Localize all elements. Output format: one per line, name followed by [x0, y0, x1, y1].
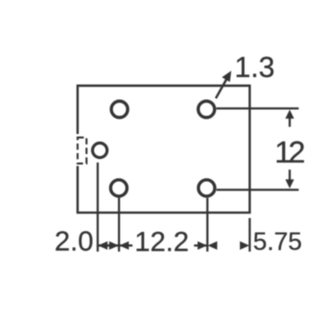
svg-text:5.75: 5.75	[253, 228, 302, 256]
label 2.0	[55, 225, 94, 256]
package outline	[78, 86, 250, 213]
extension line A (hole L-mid)	[97, 163, 99, 252]
extension line bottom (hole BR center)	[217, 189, 299, 191]
dashed side tab	[78, 138, 87, 164]
hole top-left	[111, 101, 127, 117]
svg-text:12.2: 12.2	[135, 226, 190, 257]
dim 12.2 right arrow	[194, 241, 207, 250]
leader arrow for 1.3	[216, 71, 232, 99]
extension line C (hole BR)	[206, 198, 208, 252]
hole bottom-left	[111, 180, 127, 196]
extension line top (hole TR center)	[216, 107, 298, 109]
dim 5.75 right arrow	[240, 241, 250, 250]
dim 12 up arrow	[285, 110, 294, 127]
svg-text:2.0: 2.0	[55, 225, 94, 256]
dim 12 down arrow	[285, 170, 294, 189]
svg-text:1.3: 1.3	[235, 52, 275, 84]
dim 12.2 left arrow	[119, 241, 132, 250]
dim 2.0 arrows	[98, 241, 119, 250]
extension line B (hole BL)	[118, 198, 120, 252]
extension line D (package right edge)	[249, 218, 251, 252]
dim 5.75 left arrow	[208, 241, 218, 250]
hole top-right	[198, 101, 214, 117]
label 5.75	[253, 228, 302, 256]
hole bottom-right	[198, 180, 214, 196]
label 1.3	[235, 52, 275, 84]
hole left-middle	[93, 143, 108, 158]
svg-text:12: 12	[275, 134, 305, 169]
label 12.2	[135, 226, 190, 257]
label 12	[275, 134, 305, 169]
